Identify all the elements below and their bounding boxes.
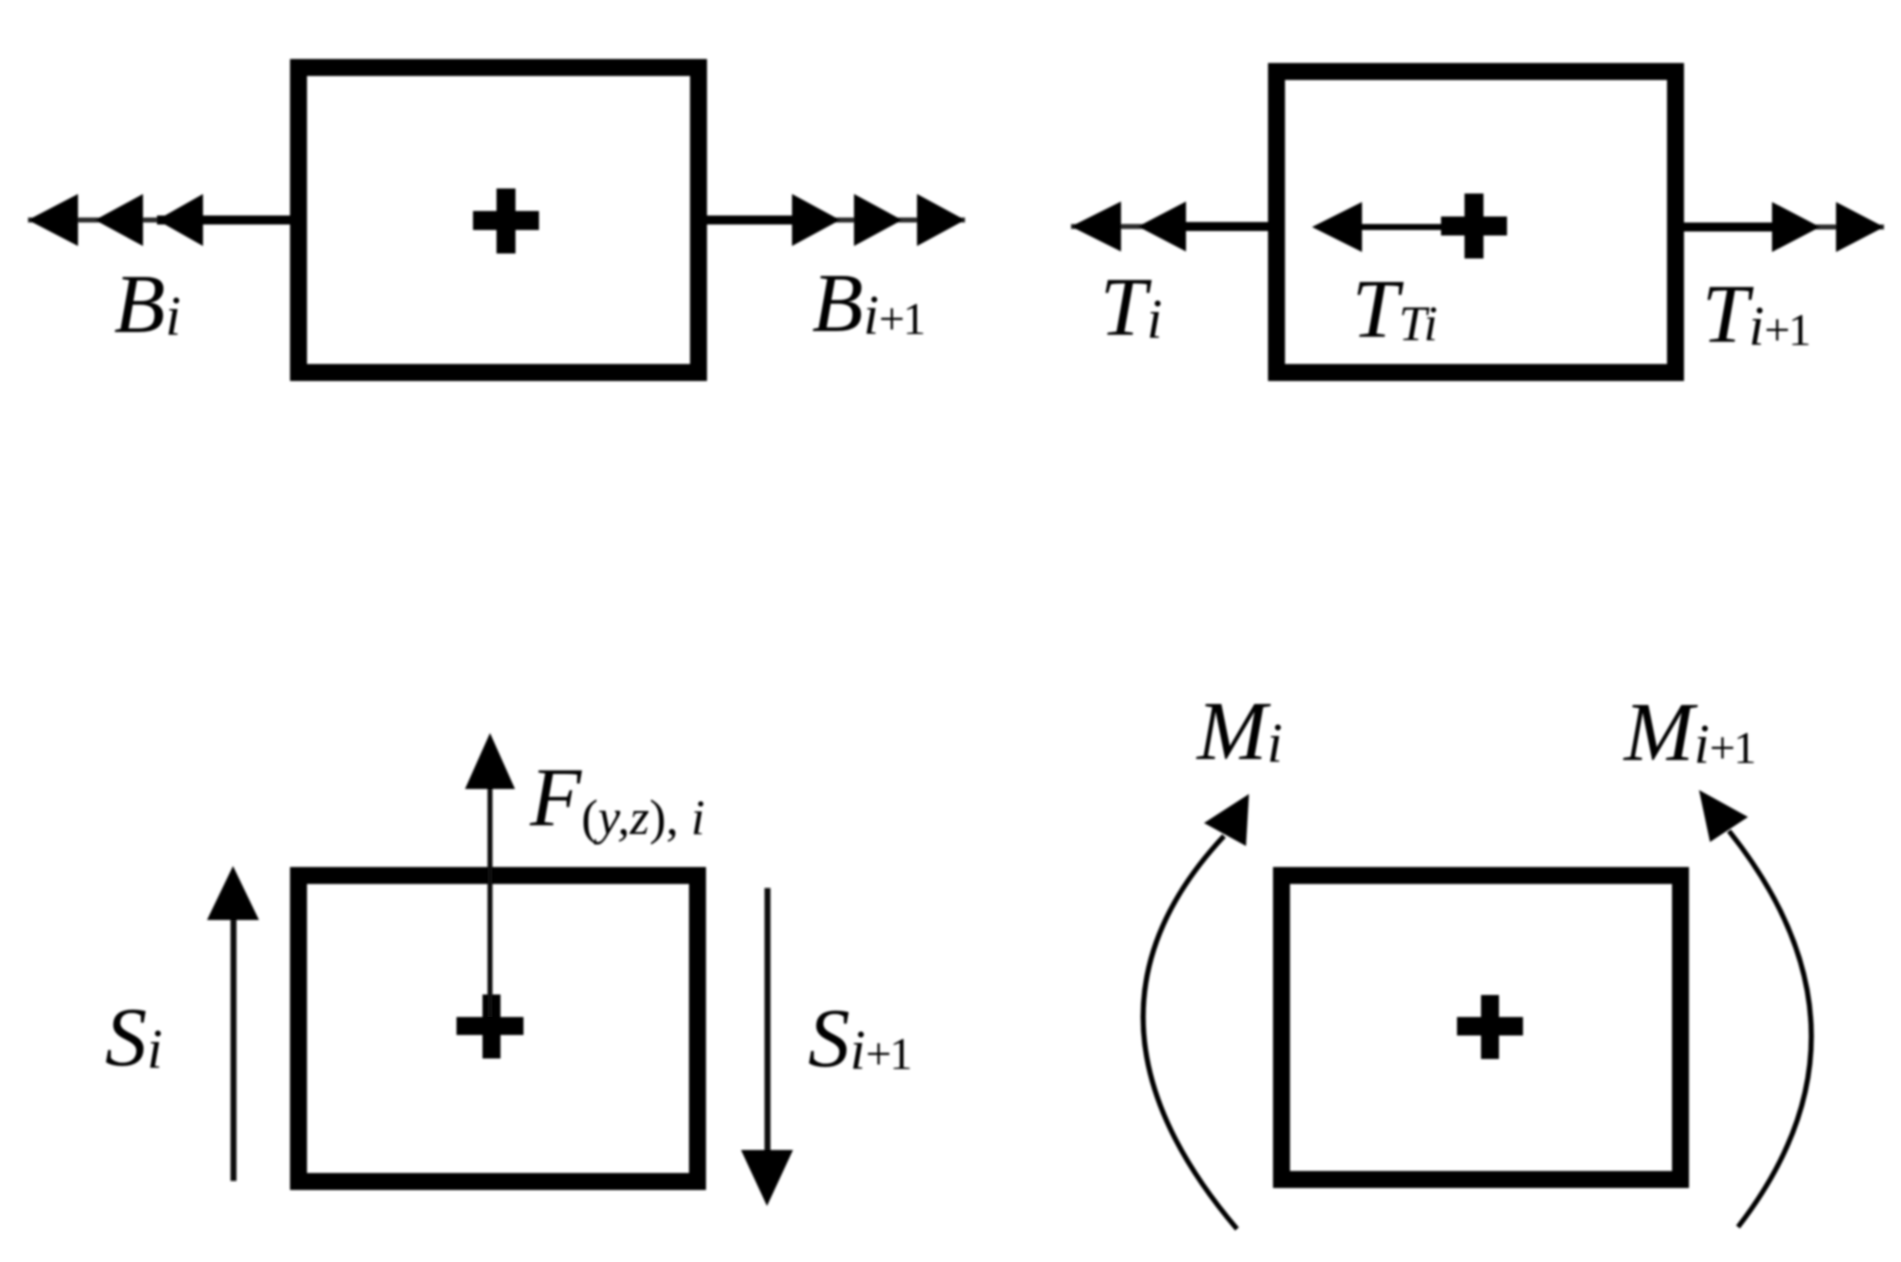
- arrowhead Ti 2: [1138, 202, 1186, 252]
- arrowhead Bi+1 2: [854, 194, 902, 246]
- centroid plus (top-right box): [1441, 194, 1507, 259]
- arrowhead Si+1: [741, 1150, 793, 1206]
- wire: internal torque line TTi: [1358, 224, 1474, 230]
- wire: left force line Bi: [28, 216, 290, 225]
- element box (top-left, bending forces): [299, 68, 699, 373]
- arrowhead F(y,z),i: [465, 733, 515, 789]
- element box (top-right, torsion): [1277, 72, 1676, 373]
- wire: left shear line Si: [231, 915, 237, 1181]
- arrowhead Ti+1 1: [1772, 202, 1820, 252]
- arrowhead Bi+1 3: [917, 194, 965, 246]
- centroid plus (bottom-right box): [1457, 995, 1523, 1059]
- wire: right torque line Ti+1: [1684, 223, 1884, 232]
- arrowhead Bi 3: [157, 194, 203, 246]
- arrowhead Si: [207, 866, 259, 920]
- wire: right force line Bi+1: [707, 216, 965, 225]
- centroid plus (bottom-left box): [457, 995, 524, 1059]
- arrowhead TTi: [1312, 202, 1362, 252]
- wire: right shear line Si+1: [765, 888, 771, 1152]
- centroid plus (top-left box): [473, 189, 539, 254]
- arrowhead Mi: [1204, 794, 1249, 846]
- moment arc Mi: [1143, 836, 1237, 1229]
- arrowhead Bi 1: [28, 194, 78, 246]
- arrowhead Ti 1: [1071, 202, 1121, 252]
- arrowhead Bi+1 1: [792, 194, 840, 246]
- wire: left torque line Ti: [1071, 222, 1268, 231]
- arrowhead Ti+1 2: [1836, 202, 1884, 252]
- arrowhead Bi 2: [95, 194, 143, 246]
- element box (bottom-right, moments): [1282, 876, 1681, 1180]
- moment arc Mi+1: [1729, 831, 1811, 1227]
- wire: applied force line F(y,z),i: [488, 786, 493, 1017]
- element box (bottom-left, shear): [299, 876, 698, 1182]
- arrowhead Mi+1: [1699, 790, 1748, 842]
